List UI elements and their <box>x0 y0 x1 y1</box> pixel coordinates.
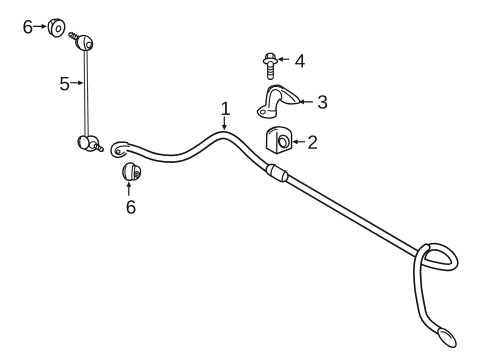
label 1 text <box>222 102 230 115</box>
label 6 text (top left) <box>23 20 32 34</box>
nut 6 (lower, on bar) : hex body and bore <box>132 166 141 180</box>
bolt 4 : threaded shank <box>267 64 273 79</box>
label 5 text <box>60 77 69 90</box>
label 2 arrow <box>292 139 305 144</box>
nut 6 (top left) : hex body <box>48 19 61 36</box>
stabilizer bar 1 : flattened tip paddle (right end) <box>435 325 459 350</box>
stabilizer bar 1 : descending end tube <box>417 248 439 331</box>
label 2 text <box>308 135 317 148</box>
link 5 : bottom stud with threads <box>96 144 104 152</box>
link 5 : top housing <box>76 36 93 51</box>
stabilizer bar 1 : bushing stop collar <box>271 164 286 181</box>
nut 6 (top left) : flange and bore <box>49 18 67 39</box>
stabilizer bar 1 : main tube <box>124 135 416 253</box>
bracket 3 : nose fold line <box>282 90 295 101</box>
stabilizer bar 1 : end loop ring (bend toward viewer) <box>422 247 455 268</box>
link 5 : rod <box>84 50 88 136</box>
link 5 : bottom housing <box>77 133 102 153</box>
bracket 3 : arch tunnel inner boundary <box>269 90 282 108</box>
bracket 3 : outer silhouette <box>257 85 300 118</box>
bracket 3 : rolled edge line (inside outer) <box>269 86 283 92</box>
bracket 3 : strap bottom end line <box>268 109 276 112</box>
bolt 4 : hex head <box>263 53 277 64</box>
bushing 2 <box>267 127 292 154</box>
label 1 arrow <box>222 117 227 130</box>
nut 6 (lower, on bar) : flange <box>122 162 138 181</box>
label 6 text (lower) <box>127 200 136 214</box>
label 5 arrow <box>71 81 84 86</box>
bracket 3 : tab hole <box>260 110 266 115</box>
label 6 arrow (lower) <box>126 181 131 195</box>
label 3 text <box>318 95 327 109</box>
label 4 arrow <box>277 57 288 62</box>
label 6 arrow (top left) <box>34 24 48 29</box>
link 5 : top ball stud with threads <box>68 32 79 40</box>
label 3 arrow <box>299 100 313 105</box>
stabilizer bar 1 : left eye end <box>111 142 129 157</box>
label 4 text <box>295 54 305 67</box>
